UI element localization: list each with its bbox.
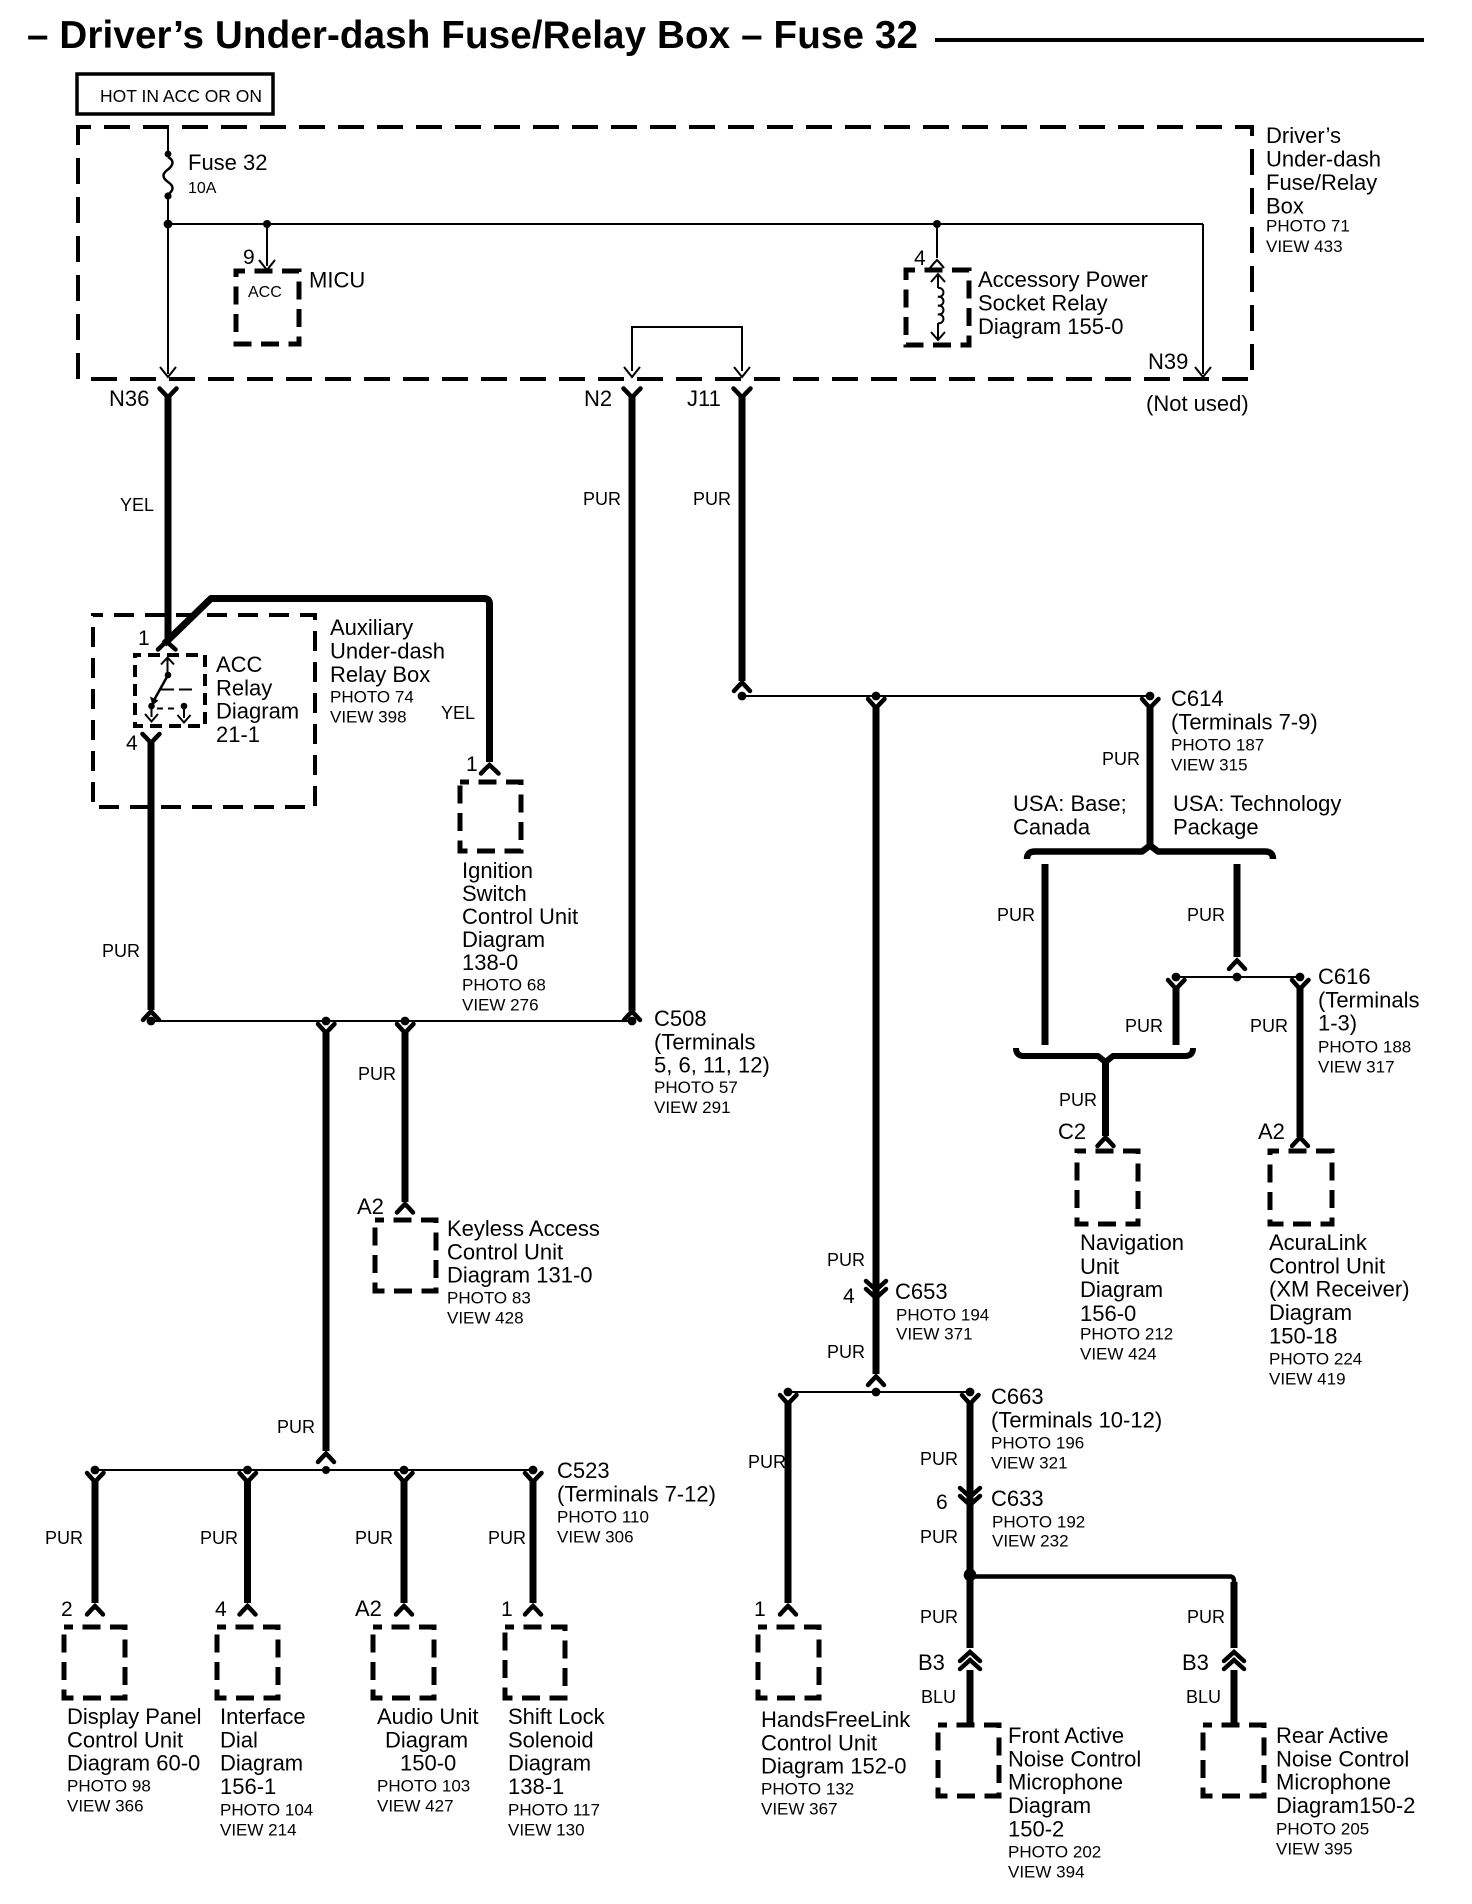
svg-text:VIEW 306: VIEW 306 (557, 1528, 634, 1547)
svg-text:PHOTO 212: PHOTO 212 (1080, 1325, 1173, 1344)
connector fork below C616 bus at x=1300 (1292, 980, 1309, 989)
svg-text:Control Unit: Control Unit (67, 1727, 183, 1752)
connector fork below C523 at x=95 (87, 1473, 104, 1482)
connector fork end at C663 bus (868, 1377, 884, 1386)
navigation unit box (dashed) (1077, 1151, 1138, 1224)
svg-text:N2: N2 (584, 386, 612, 411)
label: Front Active Noise Control Microphone Diagram 150-2 PHOTO 202 VIEW 394 (1008, 1723, 1141, 1882)
svg-text:Under-dash: Under-dash (330, 639, 445, 664)
wire ACC relay pin4 down (PUR) (148, 743, 155, 1010)
wire C508 to keyless access unit (PUR) (402, 1032, 409, 1202)
svg-text:VIEW 398: VIEW 398 (330, 708, 407, 727)
svg-text:(Terminals 7-12): (Terminals 7-12) (557, 1481, 716, 1506)
wire bus to N39 (1202, 224, 1204, 374)
jumper loop N2-J11 (632, 327, 742, 371)
wire down to USA split (PUR) (1147, 707, 1154, 847)
svg-text:1: 1 (501, 1598, 513, 1621)
junction to accessory power socket relay (933, 220, 941, 228)
shift lock solenoid box (dashed) (505, 1627, 565, 1698)
label: Driver's Under-dash Fuse/Relay Box PHOTO 71 VIEW 433 (1266, 123, 1381, 256)
label: Navigation Unit Diagram 156-0 PHOTO 212 VIEW 424 (1080, 1230, 1184, 1364)
arrow into MICU (259, 260, 275, 270)
svg-text:Interface: Interface (220, 1704, 306, 1729)
variant label USA: Base; Canada (1013, 791, 1127, 839)
wire from box top to fuse (167, 127, 169, 153)
connector fork at interface dial pin 4 (240, 1606, 256, 1615)
svg-text:(Terminals 7-9): (Terminals 7-9) (1171, 709, 1318, 734)
svg-text:PUR: PUR (1187, 1607, 1225, 1627)
svg-text:USA: Base;: USA: Base; (1013, 791, 1127, 816)
svg-text:1: 1 (754, 1598, 766, 1621)
wire to relay pin 4 (936, 224, 938, 258)
wire N36 down (YEL) (165, 397, 172, 641)
split bracket (USA variants) (1027, 846, 1273, 860)
svg-text:Microphone: Microphone (1276, 1770, 1391, 1795)
inline connector B3 front (double chevron up) (960, 1652, 980, 1669)
svg-text:PHOTO 188: PHOTO 188 (1318, 1038, 1411, 1057)
connector fork below C663 at x=970 (962, 1395, 979, 1404)
junction dot C663 right (966, 1388, 975, 1397)
junction dot C614 bus left (738, 692, 747, 701)
wire into rear microphone (BLU) (1231, 1670, 1238, 1724)
svg-text:PHOTO 74: PHOTO 74 (330, 688, 414, 707)
svg-text:BLU: BLU (921, 1687, 956, 1707)
svg-text:VIEW 232: VIEW 232 (992, 1532, 1069, 1551)
title: Driver's Under-dash Fuse/Relay Box - Fuse 32 (27, 14, 1424, 57)
connector fork end of relay-pin4 wire at C508 bus (143, 1012, 159, 1021)
svg-text:Diagram 152-0: Diagram 152-0 (761, 1754, 907, 1779)
junction to MICU branch (263, 220, 271, 228)
connector fork at ACC relay pin 1 (158, 642, 176, 650)
connector fork below C614 bus at x=1150 (1142, 699, 1159, 708)
svg-text:PHOTO 202: PHOTO 202 (1008, 1843, 1101, 1862)
junction dot C523 branch 4 (529, 1466, 538, 1475)
svg-text:Fuse/Relay: Fuse/Relay (1266, 170, 1377, 195)
svg-text:VIEW 214: VIEW 214 (220, 1821, 297, 1840)
connector fork below C508 at x=405 (397, 1024, 414, 1033)
arrow into N39 (1195, 367, 1211, 377)
connector fork end of J11 wire at C614 bus (734, 683, 750, 692)
connector fork below C614 bus at x=876 (868, 699, 885, 708)
svg-text:Navigation: Navigation (1080, 1230, 1184, 1255)
svg-text:Diagram: Diagram (1080, 1277, 1163, 1302)
junction dot C614 bus mid (872, 692, 881, 701)
svg-text:Fuse 32: Fuse 32 (188, 150, 268, 175)
svg-text:21-1: 21-1 (216, 722, 260, 747)
svg-text:VIEW 317: VIEW 317 (1318, 1058, 1395, 1077)
svg-text:VIEW 276: VIEW 276 (462, 996, 539, 1015)
label: Auxiliary Under-dash Relay Box PHOTO 74 VIEW 398 (330, 615, 445, 727)
svg-text:VIEW 394: VIEW 394 (1008, 1863, 1085, 1882)
svg-text:A2: A2 (1258, 1119, 1285, 1144)
svg-text:PHOTO 187: PHOTO 187 (1171, 736, 1264, 755)
svg-text:Diagram: Diagram (1008, 1793, 1091, 1818)
svg-text:ACC: ACC (216, 652, 263, 677)
wire J11 down (PUR) (739, 397, 746, 681)
front active noise control microphone box (dashed) (938, 1725, 999, 1796)
label: ACC Relay Diagram 21-1 (216, 652, 299, 747)
svg-text:PHOTO 57: PHOTO 57 (654, 1078, 738, 1097)
wire fuse to bus junction (167, 198, 169, 224)
wire USA base branch (PUR) (1042, 864, 1049, 1045)
svg-text:4: 4 (843, 1285, 855, 1308)
wire fuse junction down to N36 (167, 224, 169, 374)
svg-text:VIEW 321: VIEW 321 (991, 1454, 1068, 1473)
svg-text:Control Unit: Control Unit (1269, 1253, 1385, 1278)
svg-text:4: 4 (914, 247, 926, 270)
svg-text:Keyless Access: Keyless Access (447, 1216, 600, 1241)
label: Audio Unit Diagram 150-0 PHOTO 103 VIEW 427 (377, 1704, 479, 1816)
svg-text:C653: C653 (895, 1279, 948, 1304)
label: C633 PHOTO 192 VIEW 232 (991, 1486, 1085, 1551)
svg-text:C2: C2 (1058, 1119, 1086, 1144)
svg-text:Diagram: Diagram (1269, 1300, 1352, 1325)
svg-text:1: 1 (138, 627, 150, 650)
inline connector B3 rear (double chevron up) (1224, 1652, 1244, 1669)
C523 bus wire (95, 1469, 533, 1471)
svg-text:VIEW 395: VIEW 395 (1276, 1840, 1353, 1859)
svg-text:C633: C633 (991, 1486, 1044, 1511)
svg-text:PHOTO 132: PHOTO 132 (761, 1780, 854, 1799)
C508 bus wire (151, 1020, 632, 1022)
label: HandsFreeLink Control Unit Diagram 152-0 PHOTO 132 VIEW 367 (761, 1707, 911, 1819)
connector fork end of N2 wire at C508 bus (624, 1012, 640, 1021)
svg-text:C616: C616 (1318, 964, 1371, 989)
svg-text:Dial: Dial (220, 1727, 258, 1752)
svg-text:Relay Box: Relay Box (330, 662, 430, 687)
wire to shift lock solenoid (PUR) (530, 1481, 537, 1603)
svg-text:VIEW 427: VIEW 427 (377, 1797, 454, 1816)
svg-text:PHOTO 196: PHOTO 196 (991, 1434, 1084, 1453)
svg-text:138-0: 138-0 (462, 950, 518, 975)
svg-text:VIEW 428: VIEW 428 (447, 1309, 524, 1328)
svg-text:PUR: PUR (693, 489, 731, 509)
svg-text:10A: 10A (188, 180, 217, 197)
connector fork at relay pin 4 (thin) (930, 260, 944, 268)
junction dot C523 branch 1 (91, 1466, 100, 1475)
connector fork below C523 at x=247.5 (240, 1473, 257, 1482)
svg-text:C523: C523 (557, 1458, 610, 1483)
svg-text:VIEW 366: VIEW 366 (67, 1797, 144, 1816)
svg-text:Diagram 155-0: Diagram 155-0 (978, 314, 1124, 339)
interface dial box (dashed) (217, 1627, 278, 1698)
svg-text:Microphone: Microphone (1008, 1770, 1123, 1795)
node label HOT IN ACC OR ON (77, 74, 273, 114)
label: C653 PHOTO 194 VIEW 371 (895, 1279, 989, 1344)
wire down to C653 (PUR) (873, 707, 880, 1374)
svg-text:VIEW 433: VIEW 433 (1266, 237, 1343, 256)
label: Rear Active Noise Control Microphone Diagram150-2 PHOTO 205 VIEW 395 (1276, 1723, 1415, 1859)
junction dot C508 left (147, 1017, 156, 1026)
svg-text:PHOTO 224: PHOTO 224 (1269, 1350, 1362, 1369)
svg-text:(Terminals: (Terminals (1318, 987, 1419, 1012)
junction dot C523 branch 3 (400, 1466, 409, 1475)
acuralink control unit box (dashed) (1270, 1151, 1332, 1224)
node J11 (687, 386, 751, 411)
svg-text:156-1: 156-1 (220, 1774, 276, 1799)
node N36 (109, 386, 177, 411)
junction dot C523 branch 2 (243, 1466, 252, 1475)
wire down to lower bracket (PUR) (1173, 988, 1180, 1045)
svg-text:PUR: PUR (748, 1452, 786, 1472)
svg-text:1-3): 1-3) (1318, 1011, 1357, 1036)
label: AcuraLink Control Unit (XM Receiver) Diagram 150-18 PHOTO 224 VIEW 419 (1269, 1230, 1410, 1389)
svg-text:Unit: Unit (1080, 1254, 1119, 1279)
connector fork below C616 bus at x=1176 (1168, 980, 1185, 989)
svg-text:PUR: PUR (1187, 905, 1225, 925)
label: Shift Lock Solenoid Diagram 138-1 PHOTO 117 VIEW 130 (508, 1704, 606, 1840)
connector fork at ACC relay pin 4 (143, 734, 160, 743)
svg-text:USA: Technology: USA: Technology (1173, 791, 1341, 816)
svg-text:PUR: PUR (358, 1064, 396, 1084)
junction dot C508 branch 2 (401, 1017, 410, 1026)
svg-text:150-2: 150-2 (1008, 1816, 1064, 1841)
connector fork at display panel pin 2 (87, 1606, 103, 1615)
label: C663 (Terminals 10-12) PHOTO 196 VIEW 321 (991, 1384, 1162, 1473)
svg-text:PUR: PUR (827, 1250, 865, 1270)
svg-text:PUR: PUR (102, 941, 140, 961)
wire bracket to navigation (PUR) (1102, 1062, 1109, 1136)
svg-text:PHOTO 71: PHOTO 71 (1266, 217, 1350, 236)
svg-text:Under-dash: Under-dash (1266, 147, 1381, 172)
junction dot C508 right (N2) (628, 1017, 637, 1026)
node N2 (584, 386, 641, 411)
svg-text:Diagram: Diagram (216, 699, 299, 724)
label: Accessory Power Socket Relay Diagram 155-0 (978, 267, 1148, 339)
svg-text:Socket Relay: Socket Relay (978, 291, 1108, 316)
merge bracket (to navigation unit) (1016, 1048, 1193, 1062)
ACC relay internal contacts (145, 658, 193, 723)
svg-text:9: 9 (243, 246, 255, 269)
label: Display Panel Control Unit Diagram 60-0 PHOTO 98 VIEW 366 (67, 1704, 202, 1816)
svg-text:1: 1 (466, 753, 478, 776)
C663 bus wire (788, 1391, 970, 1393)
label: Ignition Switch Control Unit Diagram 138-0 (462, 858, 578, 1015)
svg-text:PHOTO 205: PHOTO 205 (1276, 1820, 1369, 1839)
svg-text:PHOTO 192: PHOTO 192 (992, 1513, 1085, 1532)
svg-text:Box: Box (1266, 194, 1304, 219)
driver's under-dash fuse/relay box (dashed enclosure) (78, 127, 1252, 379)
svg-text:PUR: PUR (920, 1449, 958, 1469)
arrow into J11 (734, 367, 750, 377)
wire to interface dial (PUR) (244, 1481, 251, 1603)
connector fork at navigation pin C2 (1098, 1138, 1114, 1147)
svg-text:PHOTO 68: PHOTO 68 (462, 976, 546, 995)
svg-text:N36: N36 (109, 386, 149, 411)
svg-text:PHOTO 103: PHOTO 103 (377, 1777, 470, 1796)
svg-text:C508: C508 (654, 1006, 707, 1031)
junction dot C663 mid (872, 1388, 881, 1397)
junction dot C508 branch 1 (322, 1017, 331, 1026)
svg-text:Display Panel: Display Panel (67, 1704, 202, 1729)
svg-text:PHOTO 98: PHOTO 98 (67, 1777, 151, 1796)
wire to handsfreelink (PUR) (785, 1403, 792, 1603)
svg-text:4: 4 (215, 1598, 227, 1621)
wire C508 to C523 (PUR) (323, 1032, 330, 1451)
svg-text:Control Unit: Control Unit (761, 1730, 877, 1755)
svg-text:Auxiliary: Auxiliary (330, 615, 413, 640)
svg-text:Diagram: Diagram (220, 1751, 303, 1776)
svg-text:PHOTO 104: PHOTO 104 (220, 1801, 313, 1820)
svg-text:Audio Unit: Audio Unit (377, 1704, 479, 1729)
svg-text:4: 4 (126, 732, 138, 755)
label: C614 (Terminals 7-9) PHOTO 187 VIEW 315 (1171, 686, 1318, 775)
handsfreelink control unit box (dashed) (758, 1627, 819, 1698)
svg-text:PHOTO 194: PHOTO 194 (896, 1306, 989, 1325)
connector fork at handsfreelink pin 1 (780, 1606, 796, 1615)
svg-text:(XM Receiver): (XM Receiver) (1269, 1277, 1410, 1302)
svg-text:Noise Control: Noise Control (1008, 1746, 1141, 1771)
fuse F32 (Fuse 32, 10A) (164, 151, 173, 200)
ACC relay box (dashed) (135, 655, 205, 726)
svg-text:Shift Lock: Shift Lock (508, 1704, 606, 1729)
svg-text:Driver’s: Driver’s (1266, 123, 1341, 148)
svg-text:(Terminals: (Terminals (654, 1029, 755, 1054)
connector fork end of long wire at C523 bus (318, 1454, 334, 1463)
svg-text:Rear Active: Rear Active (1276, 1723, 1389, 1748)
connector fork at audio unit pin A2 (396, 1606, 412, 1615)
connector fork at shift lock pin 1 (525, 1606, 541, 1615)
label: Interface Dial Diagram 156-1 PHOTO 104 VIEW 214 (220, 1704, 313, 1840)
svg-text:BLU: BLU (1186, 1687, 1221, 1707)
svg-text:VIEW 371: VIEW 371 (896, 1325, 973, 1344)
svg-text:Diagram 60-0: Diagram 60-0 (67, 1751, 200, 1776)
svg-text:Canada: Canada (1013, 814, 1091, 839)
junction dot C616 bus right (1296, 973, 1305, 982)
svg-text:PUR: PUR (997, 905, 1035, 925)
svg-text:AcuraLink: AcuraLink (1269, 1230, 1368, 1255)
svg-text:B3: B3 (1182, 1650, 1209, 1675)
wire down to C633 (PUR) (967, 1403, 974, 1574)
junction at fuse output (164, 220, 173, 229)
svg-text:A2: A2 (357, 1194, 384, 1219)
rear active noise control microphone box (dashed) (1203, 1725, 1264, 1796)
svg-text:PHOTO 117: PHOTO 117 (508, 1801, 600, 1820)
accessory power socket relay box (dashed) (906, 270, 969, 345)
connector fork end of tech branch at C616 bus (1229, 961, 1245, 970)
label: C523 (Terminals 7-12) PHOTO 110 VIEW 306 (557, 1458, 716, 1547)
svg-text:Diagram: Diagram (385, 1727, 468, 1752)
connector fork below C523 at x=533 (525, 1473, 542, 1482)
svg-text:MICU: MICU (309, 268, 365, 293)
svg-text:PUR: PUR (583, 489, 621, 509)
svg-text:PUR: PUR (277, 1417, 315, 1437)
svg-text:Ignition: Ignition (462, 858, 533, 883)
wire to audio unit (PUR) (401, 1481, 408, 1603)
svg-text:Control Unit: Control Unit (447, 1239, 563, 1264)
svg-text:A2: A2 (355, 1596, 382, 1621)
display panel control unit box (dashed) (64, 1627, 125, 1698)
svg-text:138-1: 138-1 (508, 1774, 564, 1799)
wire from relay pin1 to ignition switch (YEL) (164, 599, 490, 763)
svg-text:PUR: PUR (488, 1528, 526, 1548)
svg-text:Noise Control: Noise Control (1276, 1746, 1409, 1771)
wire N2 down (PUR) (629, 397, 636, 1011)
wire rear branch vertical (PUR) (1231, 1582, 1238, 1648)
junction dot C616 bus mid (1233, 973, 1242, 982)
label: C616 (Terminals 1-3) PHOTO 188 VIEW 317 (1318, 964, 1419, 1077)
svg-text:PUR: PUR (45, 1528, 83, 1548)
svg-text:Diagram: Diagram (508, 1751, 591, 1776)
svg-text:PHOTO 110: PHOTO 110 (557, 1508, 649, 1527)
MICU box (dashed) (236, 271, 299, 344)
connector fork at AcuraLink pin A2 (1292, 1138, 1308, 1147)
svg-text:Diagram150-2: Diagram150-2 (1276, 1793, 1415, 1818)
svg-text:Solenoid: Solenoid (508, 1727, 594, 1752)
wire into front microphone (BLU) (967, 1670, 974, 1724)
svg-text:VIEW 315: VIEW 315 (1171, 756, 1248, 775)
wire down to AcuraLink (PUR) (1297, 988, 1304, 1137)
svg-text:Diagram: Diagram (462, 927, 545, 952)
svg-text:PUR: PUR (827, 1342, 865, 1362)
svg-text:PUR: PUR (1125, 1016, 1163, 1036)
wire USA technology branch (PUR) (1234, 864, 1241, 957)
svg-text:VIEW 367: VIEW 367 (761, 1800, 838, 1819)
wire to rear microphone branch (970, 1577, 1234, 1649)
svg-text:ACC: ACC (248, 284, 282, 301)
value label Fuse 32 / 10A (188, 150, 268, 197)
C614 bus wire (742, 695, 1150, 697)
junction dot C614 bus right (1146, 692, 1155, 701)
svg-text:5, 6, 11, 12): 5, 6, 11, 12) (654, 1053, 770, 1078)
connector fork at keyless access pin A2 (397, 1204, 413, 1213)
svg-text:Front Active: Front Active (1008, 1723, 1124, 1748)
label: C508 (Terminals 5, 6, 11, 12) PHOTO 57 VIEW 291 (654, 1006, 770, 1117)
svg-text:C614: C614 (1171, 686, 1224, 711)
svg-text:HandsFreeLink: HandsFreeLink (761, 1707, 911, 1732)
junction dot C663 left (784, 1388, 793, 1397)
svg-text:VIEW 424: VIEW 424 (1080, 1345, 1157, 1364)
connector fork below C508 at x=326 (318, 1024, 335, 1033)
svg-text:VIEW 130: VIEW 130 (508, 1821, 585, 1840)
bus wire across fuse box (168, 223, 1203, 225)
connector fork below C663 at x=788 (780, 1395, 797, 1404)
wire to display panel control unit (PUR) (92, 1481, 99, 1603)
junction dot C523 center (322, 1466, 330, 1474)
audio unit box (dashed) (373, 1627, 434, 1698)
wire front branch below junction (PUR) (967, 1576, 974, 1648)
connector fork at ignition switch pin 1 (481, 765, 499, 774)
svg-text:Switch: Switch (462, 881, 527, 906)
junction dot C616 bus left (1172, 973, 1181, 982)
relay coil symbol (931, 274, 945, 340)
arrow into N36 (160, 367, 176, 377)
svg-text:VIEW 419: VIEW 419 (1269, 1370, 1346, 1389)
junction dot microphone split (964, 1569, 977, 1582)
svg-text:HOT IN ACC OR ON: HOT IN ACC OR ON (100, 86, 262, 106)
label: Keyless Access Control Unit Diagram 131-0 (447, 1216, 600, 1328)
arrow into N2 (624, 367, 640, 377)
C616 bus wire (1176, 976, 1300, 978)
svg-text:PHOTO 83: PHOTO 83 (447, 1289, 531, 1308)
svg-text:Package: Package (1173, 814, 1259, 839)
svg-text:VIEW 291: VIEW 291 (654, 1098, 731, 1117)
wire to MICU pin 9 (266, 224, 268, 266)
auxiliary under-dash relay box (dashed enclosure) (93, 615, 315, 807)
ignition switch control unit box (dashed) (460, 782, 521, 851)
svg-text:YEL: YEL (441, 703, 475, 723)
svg-text:N39: N39 (1148, 349, 1188, 374)
inline connector C633 (double chevron) (960, 1488, 980, 1505)
svg-text:Diagram 131-0: Diagram 131-0 (447, 1263, 593, 1288)
svg-text:PUR: PUR (355, 1528, 393, 1548)
svg-text:PUR: PUR (1102, 749, 1140, 769)
svg-text:Accessory Power: Accessory Power (978, 267, 1148, 292)
svg-text:PUR: PUR (1250, 1016, 1288, 1036)
svg-text:2: 2 (61, 1598, 73, 1621)
svg-text:YEL: YEL (120, 495, 154, 515)
svg-text:PUR: PUR (200, 1528, 238, 1548)
